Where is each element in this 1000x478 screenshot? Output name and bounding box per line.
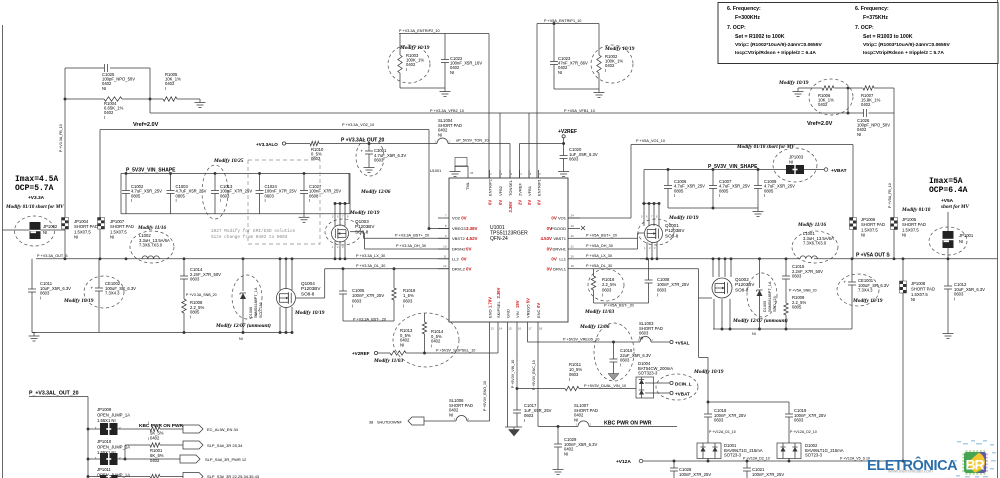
svg-text:R: R <box>975 457 985 473</box>
note frequency/OCP table <box>718 3 998 64</box>
wire v12a rail <box>643 457 910 463</box>
svg-text:7.3X4.3: 7.3X4.3 <box>858 288 873 293</box>
ground <box>753 208 764 217</box>
dashed circle modify Q1001 <box>638 219 674 245</box>
svg-text:VREG3: VREG3 <box>452 226 466 231</box>
short pad JP1006 <box>850 213 885 259</box>
dashed circle modify C3001 <box>356 138 384 176</box>
svg-text:6. Frequency:: 6. Frequency: <box>855 6 889 12</box>
dashed circle modify R1016 <box>588 269 624 301</box>
svg-text:uP_5V3V_TON_10: uP_5V3V_TON_10 <box>456 139 488 143</box>
svg-text:KBC PWR ON PWR: KBC PWR ON PWR <box>139 423 184 429</box>
dashed circle modify R1006 <box>809 79 853 115</box>
svg-text:I: I <box>265 198 266 203</box>
capacitor C1002 <box>122 173 162 213</box>
svg-text:P +V5A OUT S: P +V5A OUT S <box>856 253 890 259</box>
wire Q1003 sources <box>332 241 346 260</box>
net label P_+V3.3AL_OUT_20 <box>29 391 88 478</box>
svg-text:1.78V: 1.78V <box>487 297 492 308</box>
svg-text:7.3X6.7X3.0: 7.3X6.7X3.0 <box>139 243 163 248</box>
wire dual vin <box>517 388 636 390</box>
pin VREG3 <box>438 224 478 231</box>
svg-text:LL2: LL2 <box>452 256 459 261</box>
svg-text:P +V12A_D2_10: P +V12A_D2_10 <box>743 457 770 461</box>
capacitor C1013 <box>211 173 252 213</box>
diode D1004 <box>636 361 673 398</box>
ground <box>299 214 310 223</box>
svg-text:P +V12A_D2_10: P +V12A_D2_10 <box>790 430 817 434</box>
wire GND drop <box>507 322 509 427</box>
svg-text:P +5V3V_VREG5_10: P +5V3V_VREG5_10 <box>563 338 599 342</box>
pin VFB1 <box>527 170 532 205</box>
wire rail bottom 5 <box>713 328 852 331</box>
jumper JP1003 <box>786 155 804 175</box>
capacitor C1025 <box>102 64 135 91</box>
note Modify 12/06 <box>579 324 610 330</box>
resistor JP1011 row <box>150 474 183 478</box>
svg-text:SOT323-3: SOT323-3 <box>638 371 658 376</box>
capacitor C1026 <box>857 109 890 137</box>
svg-text:100nF_X7R_25V: 100nF_X7R_25V <box>679 472 711 477</box>
svg-text:JP1008: JP1008 <box>911 281 926 286</box>
capacitor C3001 <box>361 144 407 165</box>
note EMI/ESD dashed box <box>248 160 320 244</box>
svg-text:+V5AL: +V5AL <box>675 341 690 346</box>
svg-text:I: I <box>190 314 191 319</box>
resistor R1008 <box>182 299 205 333</box>
svg-text:Modify 10/19: Modify 10/19 <box>693 369 724 375</box>
svg-text:NI: NI <box>861 233 865 238</box>
svg-text:P +V3.3A_DL_30: P +V3.3A_DL_30 <box>356 264 385 268</box>
svg-text:25: 25 <box>470 171 474 175</box>
note Modify 10/25 <box>213 158 244 164</box>
pin VO1 <box>551 214 580 221</box>
svg-text:SLP_S4#_3R_PWR 12: SLP_S4#_3R_PWR 12 <box>205 457 247 462</box>
svg-text:7.3X4.3: 7.3X4.3 <box>105 291 120 296</box>
wire LX2 net <box>356 254 385 258</box>
svg-text:0V: 0V <box>536 200 541 205</box>
note Modify 11/16 <box>137 225 167 231</box>
svg-text:Set = R1002 to 100K: Set = R1002 to 100K <box>735 34 785 40</box>
svg-text:Size change from 0402 to 0603: Size change from 0402 to 0603 <box>211 235 288 240</box>
pin DRVH1 <box>547 245 580 252</box>
svg-text:P +V3.3A_DH_30: P +V3.3A_DH_30 <box>396 244 426 248</box>
wire net ENTRIP1 label <box>537 19 599 24</box>
dashed circle modify CE1002 <box>84 276 124 308</box>
svg-text:SOT23-3: SOT23-3 <box>805 453 823 458</box>
jumper JP1002 <box>30 222 58 239</box>
svg-text:0402: 0402 <box>406 62 416 67</box>
note Modify 12/06 <box>360 189 391 195</box>
wire vref rail <box>150 99 894 114</box>
svg-text:5V: 5V <box>525 298 530 303</box>
transistor Q1003 <box>332 219 376 242</box>
svg-text:I: I <box>657 293 658 298</box>
svg-text:I: I <box>40 295 41 300</box>
dashed circle modify R1002 <box>591 45 633 83</box>
svg-text:0603: 0603 <box>352 298 362 303</box>
svg-text:0603: 0603 <box>569 157 579 162</box>
svg-text:NI: NI <box>43 230 47 235</box>
svg-text:DRVL1: DRVL1 <box>553 266 567 271</box>
svg-text:0603: 0603 <box>220 193 230 198</box>
wire Q1004 verts <box>280 259 292 333</box>
svg-text:NI: NI <box>857 132 861 137</box>
pin TML <box>465 170 474 190</box>
dashed circle modify D1006 <box>232 275 262 319</box>
svg-text:P +V5A_VFB1_10: P +V5A_VFB1_10 <box>564 109 595 113</box>
dashed circle modify R1013 <box>393 313 459 367</box>
svg-text:Modify 10/19: Modify 10/19 <box>349 210 380 216</box>
pin LL1 <box>551 254 580 261</box>
short pad JP1005 <box>891 213 926 259</box>
node +V2REF bottom <box>352 351 378 356</box>
svg-text:NI: NI <box>959 239 963 244</box>
svg-text:SLP_S3#_3R 22,25,34,35,43: SLP_S3#_3R 22,25,34,35,43 <box>207 474 260 478</box>
net label P_5V3V_VIN_SHAPE <box>126 168 176 174</box>
pin VBST1 <box>541 234 580 241</box>
svg-text:P +V12A_D1_10: P +V12A_D1_10 <box>709 430 736 434</box>
svg-text:3.36V: 3.36V <box>466 226 478 231</box>
capacitor C1028 <box>670 461 711 478</box>
svg-text:I: I <box>148 437 149 441</box>
wire Q1001 drains <box>641 202 660 226</box>
svg-text:NI: NI <box>902 233 906 238</box>
svg-text:17: 17 <box>528 327 532 331</box>
svg-text:SO8-8: SO8-8 <box>735 287 749 292</box>
capacitor C1011 <box>28 259 71 333</box>
svg-text:22: 22 <box>571 234 575 238</box>
jumper JP1009 <box>87 407 150 435</box>
wire C1025 top loop <box>65 68 150 99</box>
svg-text:+V2REF: +V2REF <box>352 351 370 356</box>
capacitor C1008 <box>645 259 690 303</box>
note Modify 01/10 right <box>901 204 970 213</box>
svg-text:ENC: ENC <box>536 309 541 318</box>
note 1027 modify <box>211 229 296 240</box>
wire VIN drop <box>511 322 518 410</box>
svg-text:NI: NI <box>639 335 643 340</box>
svg-text:NI: NI <box>752 332 756 336</box>
svg-text:Modify 10/19: Modify 10/19 <box>604 46 635 52</box>
wire cap bank bottom <box>121 213 350 215</box>
dashed circle modify R1003 <box>388 45 430 83</box>
svg-text:0402: 0402 <box>818 102 828 107</box>
net label P_+V3.3AL_OUT_20 <box>341 138 385 144</box>
node Vref=2.0V left <box>133 122 159 128</box>
ground <box>558 168 569 177</box>
wire VO2 line <box>100 130 429 218</box>
wire DL2 net <box>296 264 449 298</box>
svg-text:NI: NI <box>110 235 114 240</box>
svg-text:P +V3.3A_BST-_20: P +V3.3A_BST-_20 <box>353 317 386 321</box>
svg-text:P +V3.3A_SNB_20: P +V3.3A_SNB_20 <box>186 293 217 297</box>
svg-text:2VREF: 2VREF <box>517 183 522 196</box>
svg-text:P +V5A_FB_10: P +V5A_FB_10 <box>888 183 892 208</box>
ground <box>29 333 40 342</box>
svg-text:0603: 0603 <box>794 418 804 423</box>
svg-text:SO8-8: SO8-8 <box>301 291 315 296</box>
ground <box>450 166 469 177</box>
wire VFB1 drop <box>529 109 595 178</box>
net label KBC PWR ON PWR <box>604 421 652 427</box>
transistor Q1002 <box>712 277 755 298</box>
wire SKIPSEL drop <box>497 322 499 353</box>
capacitor C1021 <box>743 461 784 478</box>
wire net ENTRIP2 label <box>399 29 489 34</box>
svg-text:DCIN_L: DCIN_L <box>675 382 692 387</box>
note Modify 12/07 right <box>732 317 788 324</box>
svg-text:14: 14 <box>499 327 503 331</box>
svg-text:P +V5A_DH_30: P +V5A_DH_30 <box>586 244 613 248</box>
note Modify 11/03 <box>373 358 404 364</box>
svg-text:4.52V: 4.52V <box>466 236 478 241</box>
net label TON <box>456 139 488 143</box>
pin ENC <box>536 303 543 331</box>
svg-text:0402: 0402 <box>431 339 441 344</box>
svg-text:P +V3.3A_FB_10: P +V3.3A_FB_10 <box>59 124 63 152</box>
svg-text:0603: 0603 <box>265 193 275 198</box>
svg-text:KBC PWR ON PWR: KBC PWR ON PWR <box>604 421 652 427</box>
wire ENTRIP2 loop <box>400 34 489 179</box>
svg-text:0603: 0603 <box>792 274 802 279</box>
svg-text:+V3.3A: +V3.3A <box>28 195 45 201</box>
svg-text:SKIPSEL: SKIPSEL <box>496 301 501 318</box>
resistor R1014 <box>422 313 444 353</box>
svg-text:Modify 12/07 (unmount): Modify 12/07 (unmount) <box>732 317 788 324</box>
svg-text:20: 20 <box>571 254 575 258</box>
svg-text:JP1009: JP1009 <box>97 407 112 412</box>
svg-text:0805: 0805 <box>131 193 141 198</box>
resistor R1018 <box>392 267 416 321</box>
wire Q1001 sources <box>644 242 658 260</box>
diode D1001 <box>697 443 763 461</box>
svg-text:P +V5A_ENTRIP1_10: P +V5A_ENTRIP1_10 <box>544 19 581 23</box>
svg-text:Modify 10/19: Modify 10/19 <box>294 310 325 316</box>
capacitor C1009 <box>754 170 795 209</box>
svg-text:P +V3.3A_ENTRIP2_10: P +V3.3A_ENTRIP2_10 <box>399 29 440 33</box>
svg-text:13: 13 <box>490 327 494 331</box>
svg-text:0805: 0805 <box>719 188 729 193</box>
node U1001 tag <box>430 158 467 174</box>
wire VREG5 drop <box>527 322 529 342</box>
ground <box>608 371 619 380</box>
note NI <box>752 332 756 336</box>
svg-text:P +5V3V_VIN_10: P +5V3V_VIN_10 <box>511 360 515 388</box>
svg-text:NI: NI <box>449 412 453 417</box>
svg-text:0603: 0603 <box>620 358 630 363</box>
wire jp pads to rail <box>65 229 100 259</box>
svg-text:LL1: LL1 <box>559 256 566 261</box>
node +V3.3A <box>28 195 45 201</box>
wire TONSEL drop <box>509 144 511 179</box>
inductor L1001 <box>800 256 817 259</box>
svg-text:VFB1: VFB1 <box>527 185 532 196</box>
svg-text:NI: NI <box>400 342 404 347</box>
wire rail bottom 3.3 <box>32 331 293 334</box>
svg-text:Vref=2.0V: Vref=2.0V <box>807 121 833 127</box>
svg-text:+: + <box>91 286 94 291</box>
svg-text:NI: NI <box>789 160 793 165</box>
svg-text:Modify 10/25: Modify 10/25 <box>213 158 244 164</box>
wire ENC drop <box>532 322 538 426</box>
wire page border right <box>997 0 999 478</box>
jumper JP1001 <box>943 212 974 259</box>
svg-text:I: I <box>674 193 675 198</box>
svg-text:0V: 0V <box>536 303 541 308</box>
svg-text:I: I <box>220 198 221 203</box>
svg-text:P +V5A_SNB_20: P +V5A_SNB_20 <box>789 289 817 293</box>
wire VFB2 drop <box>430 109 500 178</box>
pin PGOOD <box>547 224 580 231</box>
svg-text:0805: 0805 <box>764 188 774 193</box>
note Modify 10/19 <box>668 215 699 221</box>
svg-text:7. OCP:: 7. OCP: <box>855 25 874 31</box>
svg-text:I: I <box>352 304 353 309</box>
svg-text:Modify 10/19: Modify 10/19 <box>63 298 94 304</box>
svg-text:+V12A: +V12A <box>616 459 631 465</box>
svg-text:Imax=5A: Imax=5A <box>929 177 963 186</box>
svg-text:ENO: ENO <box>487 309 492 318</box>
node +VBAT mid <box>654 391 691 396</box>
net flag SLP_S4_3R <box>183 441 243 449</box>
note Imax right <box>929 177 968 195</box>
wire DH2 net <box>365 233 450 249</box>
svg-text:Modify 12/06: Modify 12/06 <box>579 324 610 330</box>
svg-text:ENTRIP2: ENTRIP2 <box>487 178 492 196</box>
dashed circle modify DCIN <box>656 374 698 400</box>
diode D1005 <box>757 259 778 329</box>
svg-text:VIN: VIN <box>515 311 520 318</box>
ground <box>793 88 804 97</box>
svg-text:NI: NI <box>450 70 454 75</box>
svg-text:0V: 0V <box>551 256 556 261</box>
svg-text:0603: 0603 <box>374 158 384 163</box>
pin DRVL2 <box>438 264 471 271</box>
net label SNB 3.3 <box>186 293 217 297</box>
svg-text:NI: NI <box>564 451 568 456</box>
svg-text:0V: 0V <box>547 266 552 271</box>
svg-text:0603: 0603 <box>311 156 321 161</box>
svg-text:0V: 0V <box>527 200 532 205</box>
svg-text:15: 15 <box>508 327 512 331</box>
svg-text:P +V5A_LX_30: P +V5A_LX_30 <box>586 254 612 258</box>
capacitor C1019 <box>785 402 826 443</box>
note Modify 01/10 left <box>5 204 64 210</box>
node +V12A <box>616 459 643 465</box>
svg-text:0402: 0402 <box>605 63 615 68</box>
resistor R1013 <box>390 328 413 355</box>
svg-text:I: I <box>524 418 525 423</box>
ground <box>553 466 564 475</box>
svg-text:16: 16 <box>518 327 522 331</box>
wire Q1002 sources <box>714 299 730 329</box>
svg-text:P +V3.3A_LX_30: P +V3.3A_LX_30 <box>356 254 385 258</box>
svg-text:0805: 0805 <box>190 310 200 315</box>
wire Q1002 drains <box>713 259 731 277</box>
net label SKIPSEL <box>436 349 475 353</box>
note Modify 10/19 <box>63 298 94 304</box>
wire jp1002 stub <box>3 229 66 231</box>
transistor Q1004 <box>277 281 322 308</box>
svg-text:Modify 11/16: Modify 11/16 <box>797 222 827 228</box>
svg-text:D1006: D1006 <box>249 307 253 318</box>
svg-text:NI: NI <box>239 337 243 341</box>
wire v5 cap bank top <box>644 168 786 203</box>
wire BST- net <box>343 317 394 321</box>
resistor R1010 <box>310 141 324 161</box>
wire v5 cap bank bottom <box>668 207 758 210</box>
svg-text:NI: NI <box>558 70 562 75</box>
diode D1006 <box>240 259 263 333</box>
wire kbc line <box>538 425 677 428</box>
svg-text:24: 24 <box>571 214 575 218</box>
dashed circle modify D1005 <box>747 273 777 317</box>
dashed circle modify C1013 <box>202 165 228 219</box>
svg-text:OPEN_JUMP_1A: OPEN_JUMP_1A <box>97 413 130 418</box>
svg-text:0V: 0V <box>547 247 552 252</box>
pin VIN <box>515 300 522 330</box>
op-amp U1001 body <box>449 178 568 322</box>
svg-text:0805: 0805 <box>176 193 186 198</box>
svg-text:JP1011: JP1011 <box>97 467 112 472</box>
ground <box>594 89 605 98</box>
note NI <box>239 337 243 341</box>
capacitor C1020 <box>560 147 598 168</box>
pin VBST2 <box>438 234 478 241</box>
pin ENO <box>487 297 494 331</box>
node +V3.3ALO <box>256 142 286 147</box>
wire v33al <box>286 142 510 145</box>
resistor R1003 <box>398 53 425 73</box>
svg-text:100nF_X7R_25V: 100nF_X7R_25V <box>752 472 784 477</box>
pin VO2 <box>438 214 467 221</box>
jumper JP1010 <box>87 439 183 465</box>
svg-text:P_5V3V_VIN_SHAPE: P_5V3V_VIN_SHAPE <box>126 168 176 174</box>
svg-text:NI: NI <box>574 417 578 422</box>
svg-text:+: + <box>844 280 847 285</box>
svg-text:Vref=2.0V: Vref=2.0V <box>133 122 159 128</box>
svg-text:0V: 0V <box>466 247 471 252</box>
wire BST1 net <box>580 233 638 249</box>
net flag EC_ALIW_EN <box>183 425 239 433</box>
svg-text:I: I <box>954 296 955 301</box>
wire ENO drop <box>483 322 490 421</box>
pin VREG5 <box>525 298 532 331</box>
svg-text:Imax=4.5A: Imax=4.5A <box>15 175 58 184</box>
svg-text:Modify 12/07 (unmount): Modify 12/07 (unmount) <box>215 322 271 329</box>
svg-text:Iocp=Vtrip/Rdson + Iripple/2 =: Iocp=Vtrip/Rdson + Iripple/2 = 5.7A <box>863 50 944 56</box>
capacitor C1012 <box>944 259 985 330</box>
pin DRVH2 <box>438 245 471 252</box>
net label VREG5 <box>563 338 599 342</box>
svg-text:NI: NI <box>911 297 915 302</box>
svg-text:P_+V3.3AL_OUT_20: P_+V3.3AL_OUT_20 <box>29 391 79 397</box>
svg-text:19V: 19V <box>515 300 520 308</box>
svg-text:P +V5A_DL_30: P +V5A_DL_30 <box>586 264 612 268</box>
note Modify 10/19 <box>604 46 635 52</box>
dashed circle modify C1016 <box>594 323 634 381</box>
svg-text:ENTRIP1: ENTRIP1 <box>536 178 541 196</box>
resistor R1002 <box>597 54 624 73</box>
svg-text:Modify 11/03: Modify 11/03 <box>584 309 615 315</box>
pin SKIPSEL <box>496 287 503 330</box>
svg-text:Modify 10/19: Modify 10/19 <box>668 215 699 221</box>
svg-text:7. OCP:: 7. OCP: <box>727 25 746 31</box>
wire BST2 net <box>350 232 449 239</box>
note Modify 12/07 left <box>215 322 271 329</box>
svg-text:21: 21 <box>571 245 575 249</box>
